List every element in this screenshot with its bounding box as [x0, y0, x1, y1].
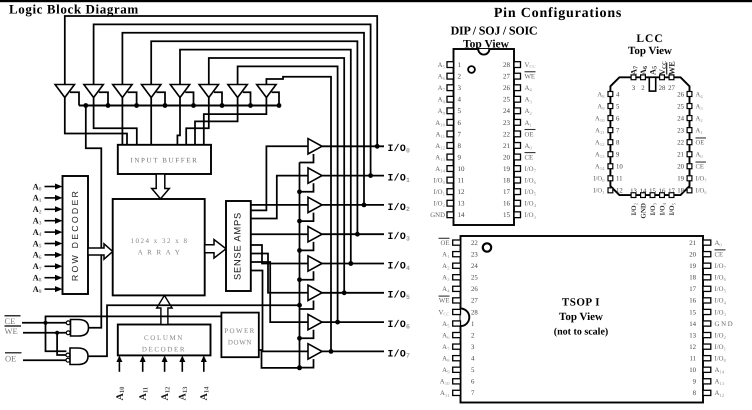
- svg-text:2: 2: [641, 85, 645, 92]
- block U5: POWER DOWN: [221, 313, 258, 358]
- svg-text:23: 23: [471, 251, 478, 258]
- svg-text:22: 22: [471, 240, 478, 247]
- pin LCC top column 28: VCC: [660, 75, 665, 80]
- pin 5 LCC left: A9: [608, 104, 613, 109]
- pin 20 TSOP right: CE: [703, 252, 711, 257]
- wire: enable stub buffer OB5: [300, 271, 314, 280]
- svg-text:2: 2: [458, 73, 462, 81]
- svg-text:CE: CE: [715, 251, 724, 258]
- svg-text:14: 14: [689, 321, 696, 328]
- svg-text:Top View: Top View: [559, 311, 603, 323]
- svg-text:8: 8: [693, 390, 697, 397]
- svg-text:20: 20: [677, 164, 684, 171]
- svg-text:26: 26: [471, 286, 478, 293]
- pin 21 LCC right: A0: [687, 152, 692, 157]
- wire: A6 into row decoder: [45, 254, 56, 256]
- pin 25 DIP right: A3: [514, 96, 521, 102]
- pin 3 DIP left: A7: [447, 85, 454, 91]
- pin 26 LCC right: A4: [687, 92, 692, 97]
- pin 17 TSOP right: I/O5: [703, 286, 711, 291]
- pin 15 DIP right: I/O3: [514, 212, 521, 218]
- pin 23 DIP right: A1: [514, 119, 521, 125]
- svg-text:GND: GND: [640, 203, 648, 219]
- svg-text:1: 1: [458, 61, 462, 69]
- pin 7 DIP left: A11: [447, 131, 454, 137]
- svg-text:5: 5: [458, 107, 462, 115]
- package TSOP I outline: [461, 236, 704, 403]
- svg-text:9: 9: [616, 152, 620, 159]
- wire: sense amp output bit 1 to buffer OB2: [251, 176, 308, 219]
- wire: A0 into row decoder: [45, 186, 56, 188]
- svg-text:13: 13: [458, 200, 466, 208]
- svg-text:COLUMN: COLUMN: [144, 334, 184, 342]
- hollow arrow: row decoder to array: [88, 244, 113, 259]
- wire: I/O1 output line: [322, 175, 384, 177]
- pin 6 TSOP left: A10: [453, 379, 461, 384]
- svg-text:INPUT BUFFER: INPUT BUFFER: [130, 157, 198, 165]
- svg-text:3: 3: [632, 85, 636, 92]
- wire: buffer IN7 output to input buffer block: [195, 98, 238, 146]
- index notch (D mark): [461, 309, 470, 327]
- wire: WE branch to gate G2: [57, 333, 66, 355]
- svg-text:10: 10: [616, 164, 623, 171]
- svg-text:21: 21: [689, 240, 696, 247]
- wire: A7 into row decoder: [45, 265, 56, 267]
- svg-text:24: 24: [503, 107, 511, 115]
- svg-text:3: 3: [458, 84, 462, 92]
- block U1: INPUT BUFFER: [118, 145, 211, 174]
- wire: I/O0 write-data feedback loop (top routing): [65, 16, 377, 146]
- buffer IN7 (data input buffer, inverted triangle): [228, 85, 247, 98]
- wire: enable stub buffer OB7: [300, 330, 314, 339]
- svg-text:6: 6: [458, 119, 462, 127]
- wire: enable stub buffer OB3: [300, 213, 314, 222]
- svg-text:9: 9: [458, 153, 462, 161]
- wire: A9 into row decoder: [45, 288, 56, 290]
- pin 6 DIP left: A10: [447, 119, 454, 125]
- wire: enable stub buffer OB4: [300, 242, 314, 251]
- wire: I/O1 write-data feedback loop (top routing): [94, 24, 371, 175]
- wire: I/O7 output line: [322, 350, 384, 352]
- wire: enable stub buffer OB6: [300, 301, 314, 310]
- svg-text:DOWN: DOWN: [228, 339, 252, 347]
- pin 28 TSOP left: VCC: [453, 309, 461, 314]
- block U2: ROW DECODER: [63, 176, 89, 294]
- pin 24 DIP right: A2: [514, 108, 521, 114]
- svg-text:25: 25: [677, 103, 684, 110]
- wire: CE branch to gate G2: [46, 323, 67, 351]
- svg-text:Pin Configurations: Pin Configurations: [494, 6, 622, 21]
- buffer IN4 (data input buffer, inverted triangle): [142, 85, 161, 98]
- svg-text:4: 4: [616, 91, 620, 98]
- svg-text:15: 15: [503, 211, 511, 219]
- pin 13 TSOP right: I/O2: [703, 332, 711, 337]
- svg-text:12: 12: [458, 188, 466, 196]
- svg-text:OE: OE: [696, 139, 705, 146]
- svg-text:7: 7: [616, 127, 620, 134]
- wire: enable tap buffer IN5: [185, 92, 193, 105]
- svg-text:7: 7: [458, 130, 462, 138]
- buffer OB4 (output buffer): [308, 227, 322, 242]
- svg-text:10: 10: [458, 165, 466, 173]
- svg-text:A R R A Y: A R R A Y: [138, 249, 182, 257]
- svg-text:28: 28: [659, 85, 666, 92]
- pin 27 TSOP left: WE: [453, 298, 461, 303]
- svg-text:Logic Block Diagram: Logic Block Diagram: [9, 2, 139, 17]
- gate G1 (write control AND gate): [71, 320, 89, 337]
- pin 14 TSOP right: GND: [703, 321, 711, 326]
- wire: buffer IN2 output to input buffer block: [94, 98, 137, 146]
- pin 16 DIP right: I/O4: [514, 200, 521, 206]
- svg-text:9: 9: [693, 379, 697, 386]
- svg-text:11: 11: [616, 176, 623, 183]
- pin 16 TSOP right: I/O4: [703, 298, 711, 303]
- buffer OB1 (output buffer): [308, 139, 322, 154]
- svg-text:12: 12: [616, 188, 623, 195]
- pin 1 index tab: [649, 77, 655, 91]
- wire: sense amp output bit 3 to buffer OB4: [251, 233, 308, 235]
- svg-text:16: 16: [689, 298, 696, 305]
- wire: sense amp output bit 7 to buffer OB8: [251, 271, 308, 352]
- svg-text:20: 20: [689, 251, 696, 258]
- wire: I/O3 output line: [322, 233, 384, 235]
- wire: sense amp output bit 2 to buffer OB3: [251, 204, 308, 206]
- svg-text:18: 18: [689, 275, 696, 282]
- pin 1 index notch: [478, 49, 489, 55]
- pin 10 DIP left: A14: [447, 166, 454, 172]
- svg-text:5: 5: [471, 367, 475, 374]
- wire: CE branch to power down: [46, 316, 222, 322]
- wire: WE to gate G1: [23, 332, 66, 334]
- node OE (output enable, active low): [5, 352, 22, 354]
- pin 2 TSOP left: A6: [453, 332, 461, 337]
- svg-text:8: 8: [616, 139, 620, 146]
- pin 21 DIP right: A0: [514, 143, 521, 149]
- wire: enable tap buffer IN3: [128, 92, 137, 105]
- svg-text:WE: WE: [525, 74, 536, 81]
- wire: I/O2 write-data feedback loop (top routing): [122, 33, 364, 205]
- buffer OB6 (output buffer): [308, 285, 322, 300]
- svg-text:23: 23: [677, 127, 684, 134]
- svg-text:22: 22: [503, 130, 511, 138]
- svg-text:14: 14: [458, 211, 466, 219]
- pin 13 DIP left: I/O2: [447, 200, 454, 206]
- svg-text:21: 21: [503, 142, 511, 150]
- top border rule: [0, 0, 752, 2]
- pin 9 TSOP right: A13: [703, 379, 711, 384]
- node A14: address input: [203, 362, 205, 372]
- pin 17 DIP right: I/O5: [514, 189, 521, 195]
- pin 18 TSOP right: I/O6: [703, 275, 711, 280]
- pin 25 LCC right: A3: [687, 104, 692, 109]
- pin 9 LCC left: A13: [608, 152, 613, 157]
- pin 11 DIP left: I/O0: [447, 177, 454, 183]
- pin 19 DIP right: I/O7: [514, 166, 521, 172]
- svg-text:7: 7: [471, 390, 475, 397]
- pin 7 TSOP left: A11: [453, 390, 461, 395]
- pin 8 DIP left: A12: [447, 143, 454, 149]
- svg-text:POWER: POWER: [224, 327, 256, 335]
- wire: enable tap buffer IN2: [99, 92, 108, 105]
- pin 13 LCC bottom: I/O2: [631, 193, 636, 198]
- wire: buffer IN4 output to input buffer block: [150, 98, 152, 146]
- node A10: address input: [118, 362, 120, 372]
- svg-text:24: 24: [471, 263, 478, 270]
- svg-text:17: 17: [503, 188, 511, 196]
- pin 22 DIP right: OE: [514, 131, 521, 137]
- pin 20 LCC right: CE: [687, 164, 692, 169]
- buffer IN1 (data input buffer, inverted triangle): [55, 85, 74, 98]
- buffer IN3 (data input buffer, inverted triangle): [113, 85, 132, 98]
- pin 8 LCC left: A12: [608, 140, 613, 145]
- svg-text:26: 26: [503, 84, 511, 92]
- buffer OB8 (output buffer): [308, 344, 322, 359]
- buffer OB3 (output buffer): [308, 197, 322, 212]
- pin 27 DIP right: WE: [514, 73, 521, 79]
- svg-text:WE: WE: [667, 61, 676, 75]
- gate G2 (read/output control AND gate): [70, 348, 88, 365]
- svg-text:CE: CE: [696, 164, 704, 171]
- pin 10 TSOP right: A14: [703, 367, 711, 372]
- wire: I/O6 output line: [322, 321, 384, 323]
- svg-text:8: 8: [458, 142, 462, 150]
- wire: buffer IN8 output to input buffer block: [204, 98, 267, 146]
- wire: A2 into row decoder: [45, 208, 56, 210]
- wire: I/O6 write-data feedback loop (top routing): [238, 66, 338, 322]
- node A12: address input: [164, 362, 166, 372]
- svg-text:25: 25: [503, 96, 511, 104]
- svg-text:WE: WE: [5, 326, 18, 336]
- svg-text:18: 18: [503, 177, 511, 185]
- wire: buffer IN6 output to input buffer block: [186, 98, 209, 146]
- pin 21 TSOP right: A0: [703, 240, 711, 245]
- pin 25 TSOP left: A3: [453, 275, 461, 280]
- svg-text:19: 19: [689, 263, 696, 270]
- svg-text:19: 19: [677, 176, 684, 183]
- wire: sense amp output bit 0 to buffer OB1: [251, 146, 308, 210]
- wire: gate G2 output to output enable rail: [88, 305, 300, 356]
- svg-text:VCC: VCC: [525, 62, 536, 69]
- svg-text:16: 16: [659, 188, 666, 195]
- svg-text:3: 3: [471, 344, 475, 351]
- wire: enable stub buffer OB8: [300, 359, 314, 368]
- wire: buffer IN3 output to input buffer block: [121, 98, 123, 146]
- pin 4 DIP left: A8: [447, 96, 454, 102]
- svg-text:28: 28: [471, 309, 478, 316]
- pin 23 TSOP left: A1: [453, 252, 461, 257]
- svg-text:11: 11: [689, 356, 696, 363]
- pin 6 LCC left: A10: [608, 116, 613, 121]
- pin 15 LCC bottom: I/O3: [650, 193, 655, 198]
- wire: I/O5 write-data feedback loop (top routing): [209, 58, 344, 293]
- wire: sense amp output bit 4 to buffer OB5: [251, 245, 308, 264]
- pin 24 LCC right: A2: [687, 116, 692, 121]
- pin 9 DIP left: A13: [447, 154, 454, 160]
- pin 15 TSOP right: I/O3: [703, 309, 711, 314]
- block U4: SENSE AMPS: [226, 201, 251, 291]
- node WE (write enable, active low): [5, 325, 22, 327]
- svg-text:1: 1: [471, 321, 474, 328]
- buffer IN8 (data input buffer, inverted triangle): [257, 85, 276, 98]
- pin 12 TSOP right: I/O1: [703, 344, 711, 349]
- wire: I/O7 write-data feedback loop (top routing): [266, 77, 331, 352]
- buffer IN6 (data input buffer, inverted triangle): [199, 85, 218, 98]
- wire: enable tap buffer IN8: [272, 92, 279, 105]
- pin 24 TSOP left: A2: [453, 263, 461, 268]
- svg-text:28: 28: [503, 61, 511, 69]
- wire: enable stub buffer OB1: [300, 154, 314, 163]
- hollow arrow: column decoder to array: [157, 295, 172, 324]
- wire: sense amp output bit 6 to buffer OB7: [251, 262, 308, 322]
- wire: buffer IN5 output to input buffer block: [177, 98, 180, 146]
- svg-text:4: 4: [458, 96, 462, 104]
- pin 7 LCC left: A11: [608, 128, 613, 133]
- wire: A3 into row decoder: [45, 220, 56, 222]
- svg-text:WE: WE: [439, 298, 450, 305]
- pin LCC top column 3: A7: [631, 75, 636, 80]
- pin 1 DIP left: A5: [447, 62, 454, 68]
- svg-text:Top View: Top View: [628, 45, 672, 57]
- wire: buffer IN1 output to input buffer block: [65, 98, 127, 146]
- wire: I/O4 output line: [322, 263, 384, 265]
- pin 5 DIP left: A9: [447, 108, 454, 114]
- svg-text:6: 6: [616, 115, 620, 122]
- svg-text:16: 16: [503, 200, 511, 208]
- buffer IN5 (data input buffer, inverted triangle): [170, 85, 189, 98]
- pin 1 indicator circle: [483, 243, 491, 251]
- pin 19 LCC right: I/O7: [687, 176, 692, 181]
- wire: enable tap buffer IN4: [156, 92, 165, 105]
- pin 10 LCC left: A14: [608, 164, 613, 169]
- svg-text:26: 26: [677, 91, 684, 98]
- pin 2 DIP left: A6: [447, 73, 454, 79]
- svg-text:20: 20: [503, 153, 511, 161]
- wire: enable tap buffer IN1: [70, 92, 79, 105]
- wire: power down to output enable rail: [259, 350, 300, 368]
- pin 22 LCC right: OE: [687, 140, 692, 145]
- wire: sense amp output bit 5 to buffer OB6: [251, 254, 308, 293]
- pin 12 DIP left: I/O1: [447, 189, 454, 195]
- pin 12 LCC left: I/O1: [608, 188, 613, 193]
- svg-text:DIP / SOJ / SOIC: DIP / SOJ / SOIC: [451, 24, 538, 38]
- svg-text:15: 15: [689, 309, 696, 316]
- svg-text:12: 12: [689, 344, 696, 351]
- svg-text:CE: CE: [5, 316, 16, 326]
- block U6: COLUMN DECODER: [118, 325, 211, 356]
- pin 19 TSOP right: I/O7: [703, 263, 711, 268]
- wire: I/O2 output line: [322, 204, 384, 206]
- pin LCC top column 27: WE: [669, 75, 674, 80]
- svg-text:5: 5: [616, 103, 620, 110]
- pin 11 TSOP right: I/O0: [703, 356, 711, 361]
- wire: A8 into row decoder: [45, 277, 56, 279]
- svg-text:DECODER: DECODER: [142, 346, 186, 354]
- pin 28 DIP right: VCC: [514, 62, 521, 68]
- pin 18 DIP right: I/O6: [514, 177, 521, 183]
- svg-text:24: 24: [677, 115, 684, 122]
- node CE (chip enable, active low): [5, 315, 21, 317]
- pin 14 DIP left: GND: [447, 212, 454, 218]
- wire: input-buffer enable bus: [79, 105, 280, 107]
- svg-text:13: 13: [689, 332, 696, 339]
- svg-text:17: 17: [689, 286, 696, 293]
- pin 4 TSOP left: A8: [453, 356, 461, 361]
- svg-text:6: 6: [471, 379, 475, 386]
- node A11: address input: [142, 362, 144, 372]
- svg-text:4: 4: [471, 356, 475, 363]
- svg-text:27: 27: [471, 298, 478, 305]
- wire: CE to gate G1: [22, 322, 66, 324]
- pin 23 LCC right: A1: [687, 128, 692, 133]
- node A13: address input: [181, 362, 183, 372]
- svg-text:18: 18: [677, 188, 684, 195]
- buffer IN2 (data input buffer, inverted triangle): [84, 85, 103, 98]
- pin 1 TSOP left: A5: [453, 321, 461, 326]
- buffer OB7 (output buffer): [308, 314, 322, 329]
- pin 1 indicator circle: [468, 66, 475, 73]
- pin 18 LCC right: I/O6: [687, 188, 692, 193]
- wire: I/O0 output line: [322, 145, 384, 147]
- svg-text:ROW DECODER: ROW DECODER: [70, 189, 80, 281]
- buffer OB5 (output buffer): [308, 256, 322, 271]
- wire: I/O3 write-data feedback loop (top routing): [151, 41, 357, 234]
- wire: I/O4 write-data feedback loop (top routing): [180, 50, 351, 264]
- svg-text:TSOP I: TSOP I: [562, 297, 600, 309]
- svg-text:SENSE AMPS: SENSE AMPS: [233, 212, 243, 280]
- wire: A4 into row decoder: [45, 231, 56, 233]
- pin 3 TSOP left: A7: [453, 344, 461, 349]
- svg-text:G N D: G N D: [715, 321, 733, 328]
- svg-text:23: 23: [503, 119, 511, 127]
- wire: I/O5 output line: [322, 292, 384, 294]
- svg-text:17: 17: [668, 188, 675, 195]
- svg-text:19: 19: [503, 165, 511, 173]
- wire: A1 into row decoder: [45, 197, 56, 199]
- pin 4 LCC left: A8: [608, 92, 613, 97]
- svg-text:OE: OE: [440, 240, 449, 247]
- wire: A5 into row decoder: [45, 243, 56, 245]
- svg-text:10: 10: [689, 367, 696, 374]
- pin 8 TSOP right: A12: [703, 390, 711, 395]
- hollow arrow: input buffer to array: [152, 174, 170, 199]
- svg-text:CE: CE: [525, 154, 534, 161]
- svg-text:LCC: LCC: [636, 33, 663, 45]
- svg-text:2: 2: [471, 332, 475, 339]
- svg-text:(not to scale): (not to scale): [554, 327, 608, 338]
- svg-text:21: 21: [677, 152, 684, 159]
- pin 20 DIP right: CE: [514, 154, 521, 160]
- pin 22 TSOP left: OE: [453, 240, 461, 245]
- wire: enable tap buffer IN7: [243, 92, 251, 105]
- svg-text:25: 25: [471, 275, 478, 282]
- hollow arrow: array to sense amps: [205, 240, 226, 259]
- svg-text:11: 11: [458, 177, 465, 185]
- pin 14 LCC bottom: GND: [641, 193, 646, 198]
- pin 11 LCC left: I/O0: [608, 176, 613, 181]
- svg-text:VCC: VCC: [438, 309, 449, 316]
- svg-text:15: 15: [649, 188, 656, 195]
- svg-text:22: 22: [677, 139, 684, 146]
- svg-text:OE: OE: [525, 131, 534, 138]
- buffer OB2 (output buffer): [308, 168, 322, 183]
- wire: enable tap buffer IN6: [214, 92, 222, 105]
- wire: output enable rail: [299, 162, 301, 368]
- pin LCC top column 2: A6: [641, 75, 646, 80]
- pin 16 LCC bottom: I/O4: [660, 193, 665, 198]
- pin 17 LCC bottom: I/O5: [669, 193, 674, 198]
- svg-text:1024 x 32 x 8: 1024 x 32 x 8: [131, 237, 189, 245]
- pin 26 TSOP left: A4: [453, 286, 461, 291]
